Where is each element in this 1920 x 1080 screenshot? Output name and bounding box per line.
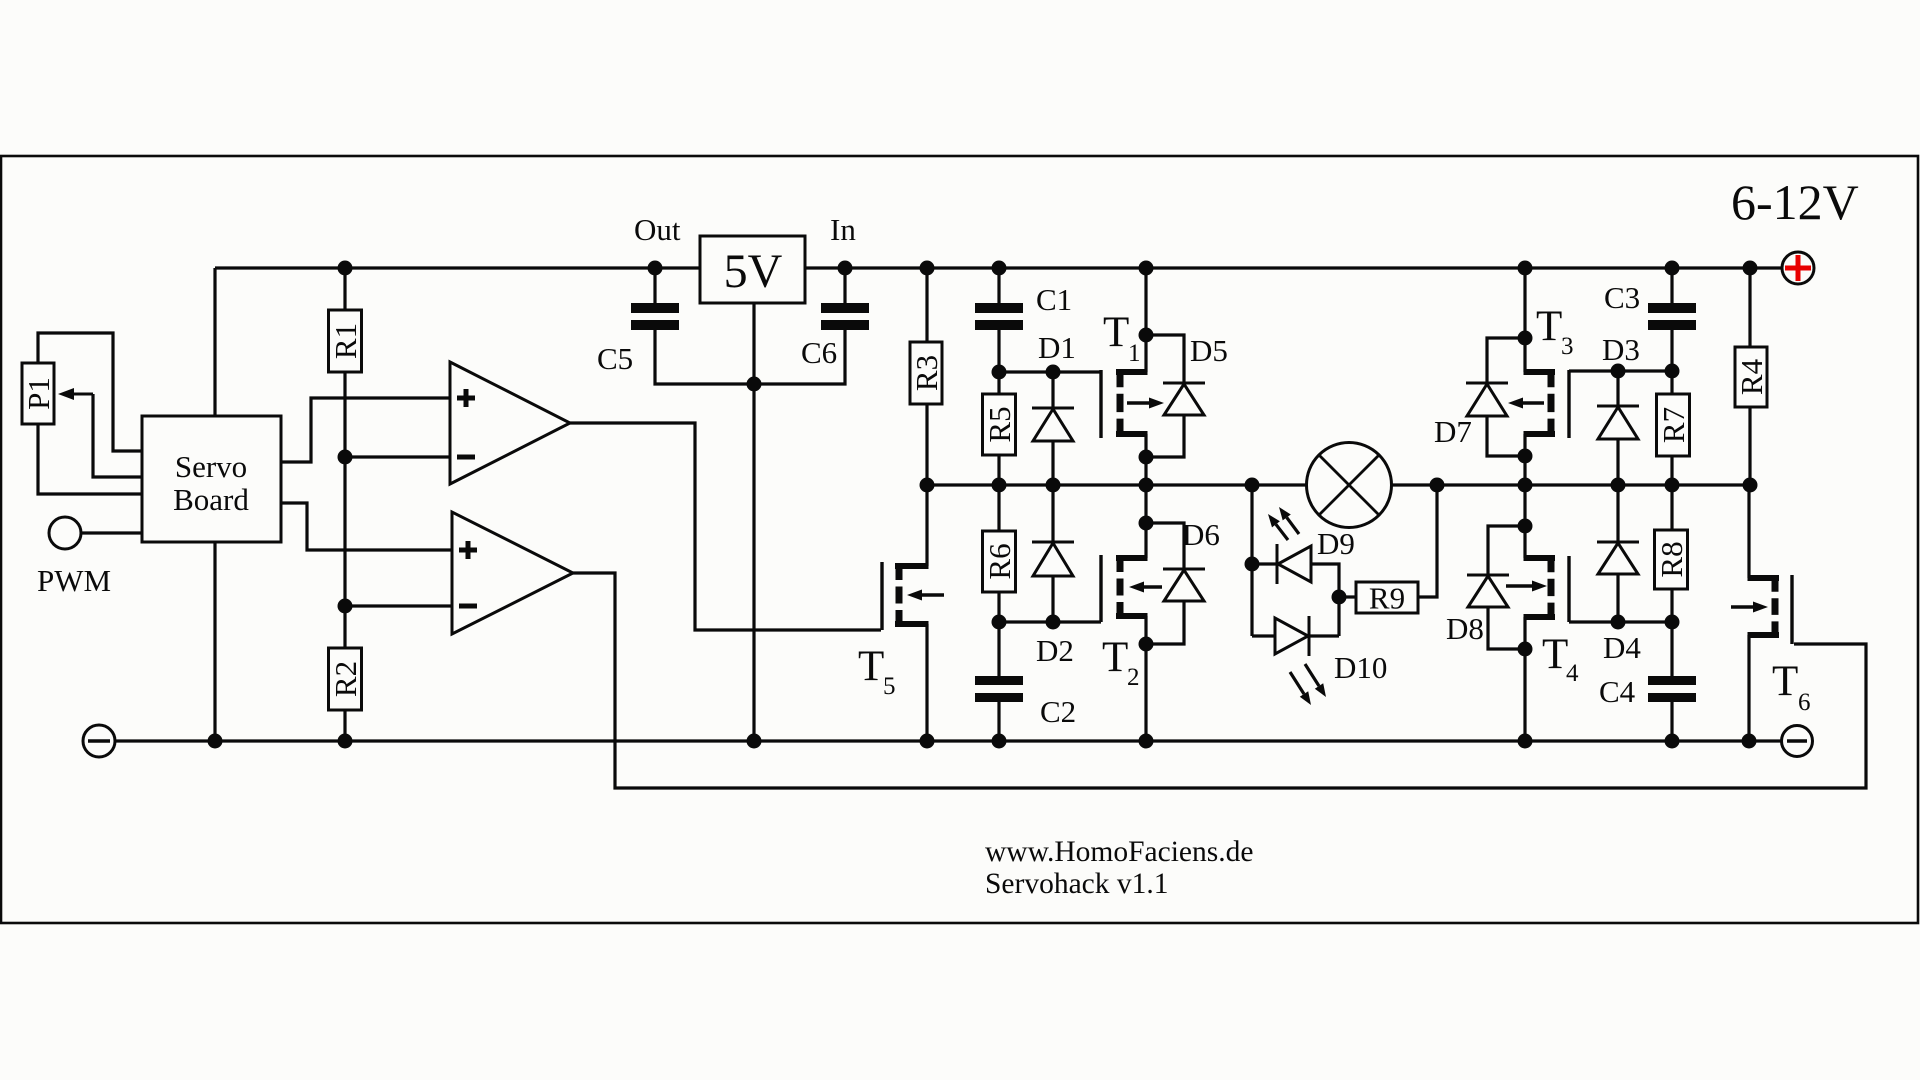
junction ground rail / T6 (1742, 734, 1757, 749)
wire top rail to T3 drain (1523, 268, 1526, 372)
svg-text:In: In (830, 212, 856, 247)
diode D4 (1616, 485, 1619, 542)
wire T3 source to mid rail (1523, 434, 1526, 485)
svg-text:R2: R2 (328, 661, 363, 697)
wire R1 bottom through op-amp input nodes to R2 (343, 372, 346, 648)
wire mid rail to T2 drain (1144, 485, 1147, 558)
wire 5V regulator ground to bottom rail (752, 303, 755, 741)
svg-text:D3: D3 (1602, 332, 1640, 367)
junction top rail / C6 In (838, 261, 853, 276)
wire mid rail to T6 drain (1747, 485, 1750, 578)
svg-text:6-12V: 6-12V (1731, 174, 1859, 230)
wire T5 source to ground rail (925, 624, 928, 741)
svg-text:T: T (1103, 309, 1129, 356)
wire top rail down to servo board (213, 268, 216, 416)
svg-text:R9: R9 (1369, 581, 1405, 616)
junction D1 top node (1046, 365, 1061, 380)
resistor R3 (925, 268, 928, 342)
wire mid rail to T4 drain (1523, 485, 1526, 558)
svg-text:D7: D7 (1434, 414, 1472, 449)
svg-text:R8: R8 (1654, 541, 1689, 577)
wire R1/R2 node to U3 minus input (345, 604, 452, 607)
junction ground rail / C4 (1665, 734, 1680, 749)
PWM input terminal (49, 517, 81, 549)
junction mid rail / D1 D2 (1046, 478, 1061, 493)
potentiometer P1 (22, 363, 54, 424)
wire middle motor rail left of lamp (927, 483, 1307, 486)
junction top rail / R3 (920, 261, 935, 276)
wire R9 to mid rail (1418, 485, 1437, 597)
transistor T1 p-channel mosfet (1116, 369, 1148, 375)
junction ground rail / R2 (338, 734, 353, 749)
wire mid rail to T5 drain (925, 485, 928, 566)
junction T3 gate / D3 node (1611, 364, 1626, 379)
svg-text:6: 6 (1798, 689, 1811, 716)
svg-text:1: 1 (1128, 340, 1141, 367)
junction T3 drain / D7 (1518, 331, 1533, 346)
svg-text:D10: D10 (1334, 650, 1387, 685)
junction mid rail / T5 drain (920, 478, 935, 493)
wire top supply rail left segment (215, 266, 700, 269)
capacitor C6 (843, 268, 846, 303)
capacitor C3 (1670, 268, 1673, 305)
wire servo board bottom to ground rail (213, 542, 216, 741)
junction C3 R7 node (1665, 364, 1680, 379)
svg-text:D9: D9 (1317, 526, 1355, 561)
junction top rail / T1 (1139, 261, 1154, 276)
plus supply terminal 6-12V (1782, 252, 1814, 284)
svg-text:D1: D1 (1038, 330, 1076, 365)
junction D9 anode node (1245, 557, 1260, 572)
lamp M1 (1307, 443, 1392, 528)
junction top rail / C3 (1665, 261, 1680, 276)
junction T4 source / D8 (1518, 642, 1533, 657)
svg-text:Servo: Servo (175, 449, 247, 484)
junction mid rail / T3 T4 (1518, 478, 1533, 493)
capacitor C5 (653, 268, 656, 303)
junction T1 drain / D5 (1139, 328, 1154, 343)
diode D3 (1616, 371, 1619, 406)
wire U2 output to T5 gate (570, 423, 881, 630)
junction ground rail / 5V (747, 734, 762, 749)
resistor R5 (997, 372, 1000, 394)
resistor R1 (343, 268, 346, 310)
junction ground rail / T4 (1518, 734, 1533, 749)
junction T4 drain / D8 (1518, 519, 1533, 534)
transistor T6 n-channel mosfet (1748, 575, 1780, 581)
resistor R8 (1670, 485, 1673, 530)
junction top rail / C1 (992, 261, 1007, 276)
junction ground rail / C2 (992, 734, 1007, 749)
diode D5 (1146, 335, 1184, 383)
wire T6 source to ground rail (1747, 635, 1750, 741)
wire T4 gate node line (1569, 620, 1672, 623)
resistor R7 (1670, 371, 1673, 394)
wire T3 gate node line (1569, 369, 1672, 372)
svg-text:C1: C1 (1036, 282, 1072, 317)
junction mid rail / R7 R8 (1665, 478, 1680, 493)
junction mid rail / T1 T2 (1139, 478, 1154, 493)
junction U2 minus input node (338, 450, 353, 465)
junction T2 drain / D6 (1139, 516, 1154, 531)
diode D6 (1146, 523, 1184, 569)
svg-text:T: T (1536, 303, 1562, 350)
svg-text:T: T (858, 643, 884, 690)
wire servo board out1 to op-amp U2 plus input (281, 398, 450, 462)
svg-text:P1: P1 (21, 377, 56, 410)
junction mid rail / R5 R6 (992, 478, 1007, 493)
svg-text:Out: Out (634, 212, 681, 247)
svg-text:5V: 5V (724, 245, 783, 298)
svg-text:T: T (1542, 631, 1568, 678)
svg-text:C4: C4 (1599, 674, 1636, 709)
svg-text:R7: R7 (1656, 407, 1691, 443)
junction R8 C4 node (1665, 615, 1680, 630)
resistor R9 (1339, 595, 1356, 598)
junction T3 source / D7 (1518, 449, 1533, 464)
wire R1/R2 node to U2 minus input (345, 455, 450, 458)
svg-text:C6: C6 (801, 335, 837, 370)
led D10 (1252, 634, 1276, 637)
op-amp U3 (452, 512, 573, 634)
svg-text:R6: R6 (982, 543, 1017, 579)
wire mid rail down to LED pair (1250, 485, 1253, 636)
svg-text:www.HomoFaciens.de: www.HomoFaciens.de (985, 836, 1253, 868)
svg-text:R1: R1 (328, 323, 363, 359)
svg-text:R3: R3 (909, 355, 944, 391)
diode D2 (1051, 485, 1054, 542)
junction U3 minus input node (338, 599, 353, 614)
wire T1 source to mid rail (1144, 434, 1147, 485)
junction T1 source / D5 (1139, 450, 1154, 465)
wire servo board out2 to op-amp U3 plus input (281, 503, 452, 550)
transistor T5 n-channel mosfet (895, 563, 929, 569)
junction R9 left node (1332, 590, 1347, 605)
junction mid rail / R4 T6 (1743, 478, 1758, 493)
svg-text:3: 3 (1561, 333, 1574, 360)
wire T2 source to ground rail (1144, 616, 1147, 741)
junction C5 C6 ground node (747, 377, 762, 392)
svg-text:R4: R4 (1734, 358, 1769, 395)
wire top supply rail right segment (805, 266, 1783, 269)
svg-text:D4: D4 (1603, 630, 1641, 665)
diode D7 (1487, 338, 1525, 383)
svg-text:D8: D8 (1446, 611, 1484, 646)
capacitor C4 (1670, 622, 1673, 678)
diode D1 (1051, 372, 1054, 408)
capacitor C1 (997, 268, 1000, 305)
svg-text:4: 4 (1566, 660, 1579, 687)
svg-text:5: 5 (883, 673, 896, 700)
svg-text:D6: D6 (1182, 517, 1220, 552)
junction T1 gate node (992, 365, 1007, 380)
junction ground rail / T5 (920, 734, 935, 749)
junction mid rail / R9 branch (1430, 478, 1445, 493)
junction top rail / C5 Out (648, 261, 663, 276)
border frame (1, 156, 1918, 923)
junction ground rail / servo board (208, 734, 223, 749)
diode D8 (1488, 526, 1525, 575)
wire P1 wiper to servo board (74, 393, 93, 396)
transistor T3 p-channel mosfet (1524, 369, 1556, 375)
minus terminal left (83, 725, 115, 757)
wire top rail to T1 drain (1144, 268, 1147, 372)
wire middle motor rail right of lamp (1391, 483, 1750, 486)
op-amp U2 (450, 362, 570, 484)
wire U3 output to T6 gate (573, 573, 1866, 788)
wire T4 source to ground rail (1523, 617, 1526, 741)
led D9 (1252, 562, 1277, 565)
junction top rail / R4 (1743, 261, 1758, 276)
capacitor C2 (997, 622, 1000, 678)
wire P1 bottom terminal to servo board (38, 424, 142, 494)
transistor T4 n-channel mosfet (1524, 555, 1556, 561)
wire PWM terminal to servo board (81, 531, 142, 534)
servo board U1 (142, 416, 281, 542)
junction T2 source / D6 (1139, 637, 1154, 652)
wire gate node to T1 gate (999, 370, 1101, 373)
svg-text:T: T (1102, 634, 1128, 681)
svg-text:D5: D5 (1190, 333, 1228, 368)
svg-text:C2: C2 (1040, 694, 1076, 729)
junction T4 gate / D4 node (1611, 615, 1626, 630)
svg-text:2: 2 (1127, 664, 1140, 691)
wire P1 top terminal to servo board (38, 333, 142, 451)
svg-text:C3: C3 (1604, 280, 1640, 315)
svg-text:Board: Board (173, 482, 249, 517)
wire bottom ground rail (116, 739, 1782, 742)
svg-text:T: T (1772, 658, 1798, 705)
transistor T2 n-channel mosfet (1116, 555, 1148, 561)
junction ground rail / T2 (1139, 734, 1154, 749)
junction top rail / R1 (338, 261, 353, 276)
junction mid rail / LED branch (1245, 478, 1260, 493)
svg-text:C5: C5 (597, 341, 633, 376)
svg-text:PWM: PWM (37, 563, 111, 598)
resistor R6 (997, 485, 1000, 531)
junction top rail / T3 (1518, 261, 1533, 276)
resistor R2 (329, 648, 362, 710)
minus terminal right (1782, 726, 1813, 757)
junction mid rail / D3 D4 (1611, 478, 1626, 493)
resistor R4 (1748, 268, 1751, 347)
wire gate node to T2 gate (999, 620, 1101, 623)
svg-text:R5: R5 (982, 406, 1017, 442)
junction D2 bottom node (1046, 615, 1061, 630)
svg-text:D2: D2 (1036, 633, 1074, 668)
voltage regulator 5V (700, 236, 805, 303)
svg-text:Servohack v1.1: Servohack v1.1 (985, 868, 1169, 900)
junction T2 gate node (992, 615, 1007, 630)
